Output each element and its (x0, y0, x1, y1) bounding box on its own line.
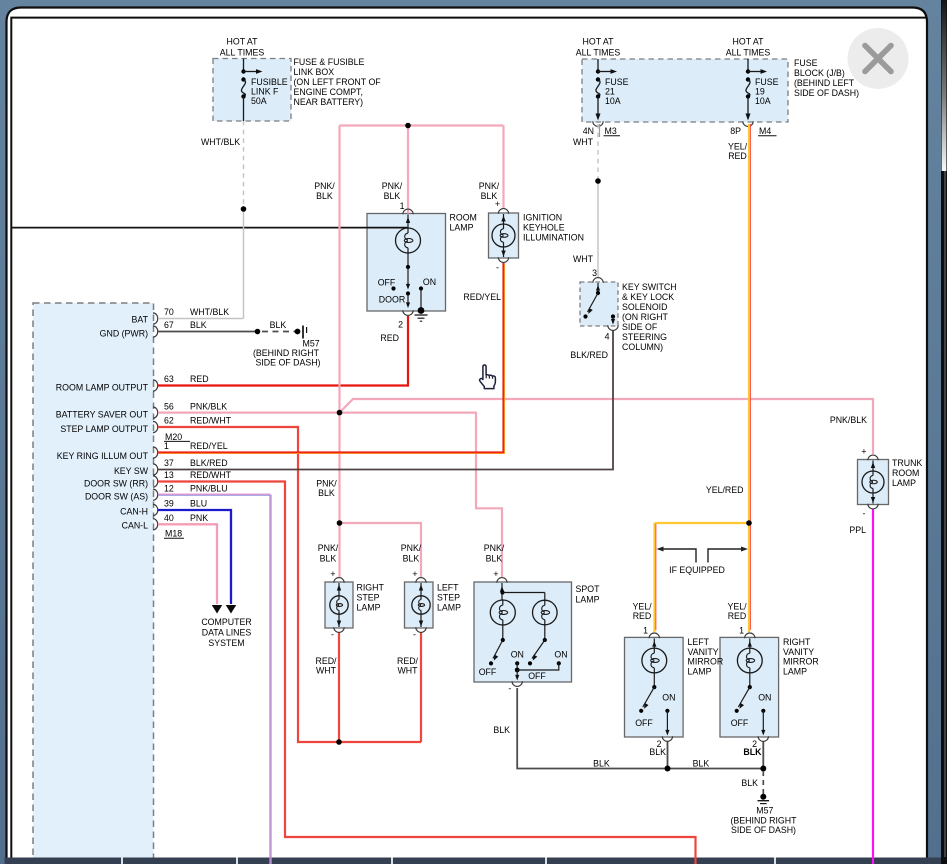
node RED/WHT step lamp junction (336, 739, 342, 745)
right vanity mirror lamp box (720, 637, 779, 737)
svg-text:MIRROR: MIRROR (688, 657, 724, 667)
svg-text:ALL TIMES: ALL TIMES (726, 48, 771, 58)
svg-text:COLUMN): COLUMN) (622, 342, 663, 352)
svg-text:WHT: WHT (316, 666, 337, 676)
svg-text:RED/YEL: RED/YEL (463, 292, 501, 302)
computer data lines system label (201, 617, 251, 648)
svg-text:PNK/: PNK/ (314, 181, 335, 191)
svg-text:LAMP: LAMP (576, 595, 600, 605)
svg-text:BATTERY SAVER OUT: BATTERY SAVER OUT (56, 410, 149, 420)
svg-text:BLK: BLK (741, 778, 758, 788)
svg-text:-: - (496, 263, 499, 273)
svg-text:BLK: BLK (318, 488, 335, 498)
room lamp ON contact to ground (418, 289, 425, 314)
svg-text:RED/: RED/ (397, 656, 419, 666)
ignition keyhole pins (495, 199, 509, 273)
wire RED module pin 63 to room lamp pin 2 (158, 316, 408, 387)
svg-text:STEP LAMP OUTPUT: STEP LAMP OUTPUT (60, 424, 148, 434)
ignition keyhole bulb (492, 214, 515, 257)
svg-text:RED: RED (728, 151, 747, 161)
svg-text:SOLENOID: SOLENOID (622, 302, 667, 312)
scrollbar thumb (942, 0, 947, 171)
svg-text:PNK/: PNK/ (382, 181, 403, 191)
labels YEL/RED vanity (632, 602, 747, 622)
svg-text:1: 1 (643, 626, 648, 636)
module pin 37 BLK/RED (153, 458, 228, 475)
label PNK/BLK mid (316, 479, 337, 499)
wire BLK module pin 67 to M57 (158, 320, 307, 339)
svg-text:KEY SW: KEY SW (114, 466, 149, 476)
right step lamp box (325, 582, 353, 628)
svg-text:HOT AT: HOT AT (733, 37, 765, 47)
key switch and key lock solenoid box (580, 282, 618, 326)
svg-text:M3: M3 (605, 126, 617, 136)
key switch label (622, 282, 677, 352)
svg-text:BLK/RED: BLK/RED (190, 458, 228, 468)
svg-text:FUSE: FUSE (794, 58, 818, 68)
svg-text:67: 67 (164, 320, 174, 330)
svg-text:YEL/: YEL/ (727, 602, 747, 612)
module pin 40 PNK (153, 513, 208, 530)
svg-text:19: 19 (755, 87, 765, 97)
svg-text:LEFT: LEFT (437, 583, 459, 593)
module pin 63 RED (153, 374, 209, 391)
fuse and fusible link box (213, 59, 291, 122)
svg-text:(ON LEFT FRONT OF: (ON LEFT FRONT OF (294, 77, 382, 87)
svg-text:63: 63 (164, 374, 174, 384)
labels PNK/BLK top (314, 181, 500, 201)
wire RED/YEL module pin 1 to ignition keyhole illumination (158, 263, 505, 454)
svg-text:LAMP: LAMP (892, 478, 916, 488)
spot lamp bulbs (490, 583, 557, 626)
svg-text:PNK/: PNK/ (318, 543, 339, 553)
svg-text:ROOM LAMP OUTPUT: ROOM LAMP OUTPUT (56, 383, 149, 393)
module pin 70 WHT/BLK (153, 307, 229, 324)
svg-text:TRUNK: TRUNK (892, 458, 922, 468)
node BLK left vanity (665, 766, 671, 772)
svg-text:SYSTEM: SYSTEM (208, 638, 244, 648)
left step lamp pins (412, 569, 426, 640)
svg-text:LAMP: LAMP (357, 603, 381, 613)
svg-text:62: 62 (164, 416, 174, 426)
spot lamp left switch (479, 625, 524, 677)
svg-text:10A: 10A (605, 96, 621, 106)
module pin 12 PNK/BLU (153, 483, 228, 500)
svg-text:BLK: BLK (190, 320, 207, 330)
svg-text:BLK: BLK (593, 759, 610, 769)
svg-text:70: 70 (164, 307, 174, 317)
spot lamp output node (515, 663, 559, 680)
module pin 1 RED/YEL (153, 441, 228, 458)
fuse 21 10A (596, 59, 629, 121)
svg-text:SIDE OF DASH): SIDE OF DASH) (255, 358, 320, 368)
svg-text:NEAR BATTERY): NEAR BATTERY) (294, 97, 364, 107)
svg-text:BLK: BLK (649, 747, 666, 757)
room lamp switch (378, 265, 436, 308)
wire BLK/RED module pin 37 to key switch pin 4 (158, 330, 613, 470)
svg-text:CAN-L: CAN-L (122, 521, 149, 531)
svg-text:ALL TIMES: ALL TIMES (220, 48, 265, 58)
svg-text:LINK F: LINK F (251, 87, 279, 97)
svg-text:COMPUTER: COMPUTER (201, 617, 251, 627)
svg-text:BLK: BLK (743, 747, 762, 757)
svg-text:STEERING: STEERING (622, 332, 667, 342)
svg-text:M18: M18 (165, 529, 182, 539)
svg-text:PNK/BLK: PNK/BLK (190, 401, 227, 411)
svg-text:M20: M20 (165, 432, 182, 442)
svg-text:BLK: BLK (486, 554, 503, 564)
svg-text:ON: ON (511, 649, 524, 659)
connector M3 4N (583, 121, 620, 137)
ignition keyhole illumination box (489, 213, 519, 258)
svg-text:BLU: BLU (190, 499, 207, 509)
svg-text:GND (PWR): GND (PWR) (100, 329, 148, 339)
svg-text:50A: 50A (251, 96, 267, 106)
scrollbar track (941, 0, 947, 864)
svg-text:OFF: OFF (635, 718, 653, 728)
module connector box (body control module) (33, 303, 154, 860)
wire PNK/BLU module pin 12 door switch AS (158, 494, 271, 857)
wire RED/WHT module pin 13 door switch RR (158, 482, 696, 858)
svg-text:+: + (412, 569, 417, 579)
svg-text:8P: 8P (730, 126, 741, 136)
key switch pin 3 (592, 268, 603, 283)
svg-text:STEP: STEP (357, 593, 380, 603)
svg-text:KEYHOLE: KEYHOLE (523, 223, 565, 233)
node BLK right vanity (760, 766, 766, 772)
fuse block note (794, 58, 859, 98)
connector M4 8P (730, 121, 776, 137)
label HOT AT ALL TIMES fuse 21 (576, 37, 621, 58)
svg-text:ON: ON (662, 692, 675, 702)
room lamp pin 1 (400, 201, 414, 214)
svg-text:ON: ON (423, 277, 436, 287)
wire PNK/BLK left step lamp branch (340, 523, 422, 577)
left step lamp label (437, 583, 461, 613)
wire BLK horizontal from page left to room lamp (11, 227, 408, 229)
svg-text:ALL TIMES: ALL TIMES (576, 48, 621, 58)
left vanity mirror lamp (635, 626, 723, 758)
svg-text:10A: 10A (755, 96, 771, 106)
svg-text:PNK/: PNK/ (479, 181, 500, 191)
wire PNK/BLK module pin 56 to trunk room lamp (158, 399, 873, 454)
svg-text:37: 37 (164, 458, 174, 468)
svg-text:WHT/BLK: WHT/BLK (190, 307, 229, 317)
svg-text:2: 2 (398, 320, 403, 330)
fuse 19 10A (746, 59, 779, 121)
svg-text:OFF: OFF (528, 671, 546, 681)
svg-text:40: 40 (164, 513, 174, 523)
svg-text:KEY RING ILLUM OUT: KEY RING ILLUM OUT (57, 451, 149, 461)
connector M57 bottom note (731, 806, 798, 836)
svg-text:LINK BOX: LINK BOX (294, 67, 335, 77)
svg-text:RED/: RED/ (315, 656, 337, 666)
svg-text:PNK/: PNK/ (401, 543, 422, 553)
fusible link F 50A (241, 59, 287, 122)
connector label M18 (164, 529, 184, 539)
connector label M20 (164, 432, 190, 442)
svg-text:BLK: BLK (320, 554, 337, 564)
svg-text:PNK/BLK: PNK/BLK (830, 415, 867, 425)
module pin 56 PNK/BLK (153, 401, 227, 418)
node splice WHT/BLK (241, 206, 247, 212)
svg-text:ROOM: ROOM (892, 468, 919, 478)
svg-text:WHT/BLK: WHT/BLK (201, 137, 240, 147)
wire BLK dashed to M57 ground (741, 771, 763, 794)
room lamp ground (415, 315, 428, 321)
svg-text:ILLUMINATION: ILLUMINATION (523, 233, 584, 243)
svg-text:IF EQUIPPED: IF EQUIPPED (669, 565, 725, 575)
module pin 62 RED/WHT (153, 416, 232, 433)
svg-text:VANITY: VANITY (783, 647, 814, 657)
room lamp pin 2 (398, 310, 413, 329)
svg-text:ON: ON (758, 692, 771, 702)
svg-text:LEFT: LEFT (688, 637, 710, 647)
svg-text:FUSIBLE: FUSIBLE (251, 77, 288, 87)
svg-text:RED/YEL: RED/YEL (190, 441, 228, 451)
svg-text:& KEY LOCK: & KEY LOCK (622, 292, 674, 302)
svg-text:BLOCK (J/B): BLOCK (J/B) (794, 68, 845, 78)
wire BLU module pin 39 CAN-H (158, 510, 236, 614)
fusible link box note (294, 57, 382, 107)
module pin 39 BLU (153, 499, 207, 516)
svg-text:BAT: BAT (132, 315, 149, 325)
svg-text:56: 56 (164, 401, 174, 411)
svg-text:BLK: BLK (316, 191, 333, 201)
wire WHT/BLK fusible link to module pin 70 (158, 121, 244, 319)
wire BLK right vanity to ground run (762, 742, 764, 769)
left vanity mirror lamp box (625, 637, 684, 737)
wire PPL trunk room lamp output (849, 509, 873, 857)
module pin 13 RED/WHT (153, 470, 232, 487)
room lamp bulb (396, 215, 421, 268)
svg-text:BLK: BLK (403, 554, 420, 564)
svg-text:1: 1 (400, 201, 405, 211)
svg-text:FUSE: FUSE (755, 77, 779, 87)
svg-text:21: 21 (605, 87, 615, 97)
wire PNK module pin 40 CAN-L (158, 524, 222, 613)
fuse block (J/B) box (582, 59, 788, 122)
spot lamp box (474, 582, 572, 682)
svg-text:39: 39 (164, 499, 174, 509)
svg-text:LAMP: LAMP (450, 223, 474, 233)
svg-text:RED: RED (728, 611, 747, 621)
svg-text:+: + (493, 569, 498, 579)
svg-text:-: - (331, 630, 334, 640)
svg-text:(BEHIND RIGHT: (BEHIND RIGHT (731, 816, 798, 826)
spot lamp right switch (528, 625, 568, 681)
svg-text:RED/WHT: RED/WHT (190, 470, 232, 480)
svg-text:SIDE OF: SIDE OF (622, 322, 658, 332)
svg-text:PPL: PPL (849, 525, 866, 535)
svg-text:DOOR SW (AS): DOOR SW (AS) (85, 492, 148, 502)
left step lamp box (405, 582, 434, 628)
wire WHT fuse 21 to key switch (573, 124, 598, 277)
svg-text:12: 12 (164, 483, 174, 493)
trunk room lamp bulb (862, 461, 884, 504)
mouse cursor (480, 365, 496, 389)
trunk room lamp label (892, 458, 922, 488)
svg-text:HOT AT: HOT AT (583, 37, 615, 47)
close button (848, 28, 909, 89)
svg-text:(BEHIND RIGHT: (BEHIND RIGHT (253, 348, 320, 358)
key switch pin 4 (605, 325, 619, 341)
svg-text:PNK/BLU: PNK/BLU (190, 483, 228, 493)
node PNK/BLK step lamp junction (337, 520, 343, 526)
svg-text:M57: M57 (303, 339, 320, 349)
connector M57 right of module note (253, 339, 321, 368)
wire RED/WHT module pin 62 step lamp output (158, 427, 421, 742)
label HOT AT ALL TIMES fuse 19 (726, 37, 771, 58)
svg-text:DATA LINES: DATA LINES (202, 628, 252, 638)
key switch internals (583, 283, 615, 325)
svg-text:RIGHT: RIGHT (357, 583, 385, 593)
svg-text:RED: RED (380, 333, 399, 343)
svg-text:M4: M4 (759, 126, 771, 136)
svg-text:BLK/RED: BLK/RED (570, 350, 608, 360)
node YEL/RED vanity junction (746, 520, 752, 526)
svg-text:+: + (330, 569, 335, 579)
svg-text:CAN-H: CAN-H (120, 507, 148, 517)
wire BLK left vanity to ground run (667, 742, 669, 769)
ignition keyhole label (523, 213, 584, 243)
left step lamp bulb (412, 583, 430, 627)
ground M57 (758, 794, 770, 804)
svg-text:ON: ON (554, 649, 567, 659)
svg-text:LAMP: LAMP (688, 666, 712, 676)
node WHT splice (595, 178, 601, 184)
module left labels (56, 315, 149, 531)
svg-text:13: 13 (164, 470, 174, 480)
svg-text:VANITY: VANITY (688, 647, 719, 657)
svg-text:DOOR SW (RR): DOOR SW (RR) (84, 479, 148, 489)
svg-text:BLK: BLK (693, 759, 710, 769)
room lamp box (367, 214, 446, 312)
spot lamp pin + (493, 569, 507, 583)
svg-text:WHT: WHT (397, 666, 418, 676)
svg-text:YEL/: YEL/ (728, 142, 748, 152)
spot lamp label (576, 584, 601, 605)
svg-text:MIRROR: MIRROR (783, 657, 819, 667)
svg-text:PNK/: PNK/ (316, 479, 337, 489)
label HOT AT ALL TIMES left (220, 37, 265, 58)
svg-text:SPOT: SPOT (576, 584, 601, 594)
right step lamp pins (330, 569, 344, 640)
svg-text:SIDE OF DASH): SIDE OF DASH) (731, 825, 796, 835)
wire ticks over bottom bar (270, 857, 873, 864)
svg-text:WHT: WHT (573, 254, 594, 264)
module pin 67 BLK (153, 320, 207, 337)
svg-text:LAMP: LAMP (437, 603, 461, 613)
svg-text:OFF: OFF (378, 278, 396, 288)
wire YEL/RED fuse 19 to vanity lamps (655, 124, 751, 632)
svg-text:FUSE & FUSIBLE: FUSE & FUSIBLE (294, 57, 365, 67)
svg-text:-: - (863, 509, 866, 519)
svg-text:RED: RED (633, 611, 652, 621)
svg-text:ROOM: ROOM (450, 213, 477, 223)
svg-text:3: 3 (592, 268, 597, 278)
svg-text:STEP: STEP (437, 593, 460, 603)
svg-text:KEY SWITCH: KEY SWITCH (622, 282, 677, 292)
room lamp label (450, 213, 477, 233)
svg-text:YEL/RED: YEL/RED (706, 485, 744, 495)
svg-text:+: + (861, 447, 866, 457)
svg-text:RED/WHT: RED/WHT (190, 416, 232, 426)
labels PNK/BLK lower (318, 543, 505, 564)
labels RED/WHT step lamps (315, 656, 418, 676)
svg-text:SIDE OF DASH): SIDE OF DASH) (794, 88, 859, 98)
svg-text:-: - (508, 684, 511, 694)
spot lamp pin - (508, 681, 522, 693)
svg-text:BLK: BLK (270, 320, 287, 330)
svg-text:DOOR: DOOR (379, 295, 405, 305)
wire PNK/BLK top distribution (340, 126, 504, 214)
svg-text:BLK: BLK (384, 191, 401, 201)
svg-text:(BEHIND LEFT: (BEHIND LEFT (794, 78, 855, 88)
right step lamp bulb (330, 583, 348, 627)
node PNK/BLK room lamp branch (405, 123, 411, 129)
wire PNK/BLK spot lamp feed (340, 413, 503, 577)
svg-text:+: + (495, 199, 500, 209)
svg-text:-: - (413, 630, 416, 640)
svg-text:YEL/: YEL/ (632, 602, 652, 612)
trunk room lamp box (858, 460, 889, 505)
right step lamp label (357, 583, 385, 613)
right vanity mirror lamp (731, 626, 819, 758)
svg-text:1: 1 (739, 626, 744, 636)
svg-text:PNK/: PNK/ (484, 543, 505, 553)
svg-text:RED: RED (190, 374, 209, 384)
scrollbar inner line (944, 171, 946, 857)
svg-text:FUSE: FUSE (605, 77, 629, 87)
wire BLK spot lamp ground run (493, 688, 763, 769)
svg-text:PNK: PNK (190, 513, 208, 523)
wire PNK/BLK battery saver net vertical (338, 126, 340, 578)
node PNK/BLK battery saver junction (337, 410, 343, 416)
svg-text:1: 1 (164, 441, 169, 451)
svg-text:WHT: WHT (573, 137, 594, 147)
svg-text:LAMP: LAMP (783, 666, 807, 676)
bottom clipped row bar (5, 858, 944, 864)
svg-text:RIGHT: RIGHT (783, 637, 811, 647)
svg-text:ENGINE COMPT,: ENGINE COMPT, (294, 87, 363, 97)
svg-text:OFF: OFF (479, 667, 497, 677)
svg-text:(ON RIGHT: (ON RIGHT (622, 312, 669, 322)
svg-text:BLK: BLK (493, 725, 510, 735)
svg-text:4: 4 (605, 332, 610, 342)
svg-text:4N: 4N (583, 126, 594, 136)
svg-text:M57: M57 (756, 806, 773, 816)
trunk room lamp pins (861, 447, 878, 519)
if equipped bracket (657, 547, 749, 576)
svg-text:IGNITION: IGNITION (523, 213, 562, 223)
svg-text:HOT AT: HOT AT (227, 37, 259, 47)
svg-text:OFF: OFF (731, 718, 749, 728)
